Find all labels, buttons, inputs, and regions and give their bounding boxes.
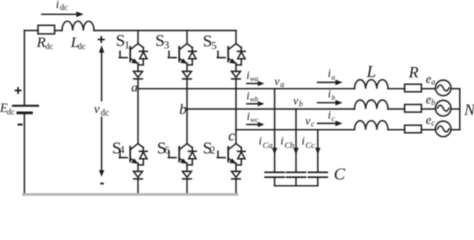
wire: S6 output to bottom rail — [186, 179, 188, 194]
grid inductor L phase b — [355, 100, 389, 109]
wire: inductor to resistor phase c — [388, 129, 405, 131]
capacitor branch a: wire from line a down — [274, 89, 276, 172]
wire: node b down to switch S6 — [186, 109, 188, 144]
svg-text:Cc: Cc — [306, 140, 316, 150]
wire: left vertical from battery - terminal to bottom rail — [23, 113, 25, 194]
svg-text:c: c — [311, 119, 315, 128]
svg-text:dc: dc — [78, 41, 86, 51]
svg-text:i: i — [280, 134, 283, 148]
switch S1 (IGBT + antiparallel diode + series diode) — [119, 44, 147, 79]
battery E_dc positive plate (long) — [13, 105, 38, 107]
svg-text:L: L — [366, 62, 376, 81]
wire: S3 output down to node b — [186, 79, 188, 109]
minus sign of battery — [18, 124, 23, 126]
switch S2 — [217, 144, 245, 179]
capacitor branch c: wire from line c down — [317, 130, 319, 172]
phase line a: node a to filter inductor — [138, 88, 355, 90]
capacitor Cc plates — [308, 172, 327, 177]
svg-text:a: a — [332, 74, 336, 82]
svg-text:b: b — [179, 102, 187, 118]
svg-text:c: c — [228, 128, 235, 144]
svg-text:a: a — [131, 80, 138, 95]
svg-text:dc: dc — [101, 108, 110, 118]
AC source e_a — [435, 80, 451, 96]
svg-text:b: b — [332, 94, 336, 102]
AC source e_c — [435, 121, 451, 137]
svg-text:i: i — [302, 134, 305, 148]
wire: S2 output to bottom rail — [235, 179, 237, 194]
svg-text:5: 5 — [211, 40, 217, 52]
svg-text:dc: dc — [45, 41, 53, 51]
wire: inductor to resistor phase a — [388, 88, 405, 90]
svg-text:v: v — [94, 102, 100, 116]
grid inductor L phase c — [355, 121, 389, 130]
svg-text:N: N — [463, 102, 474, 119]
wire: resistor to source phase b — [421, 108, 435, 110]
wire: top rail from L_dc to column c — [94, 30, 236, 32]
svg-text:i: i — [56, 0, 59, 11]
svg-text:i: i — [259, 134, 262, 148]
svg-text:R: R — [408, 64, 419, 81]
wire: S4 output to bottom rail — [137, 179, 139, 194]
svg-text:a: a — [280, 80, 284, 89]
minus sign of v_dc — [100, 183, 104, 185]
wire: source a to neutral bus — [451, 88, 460, 90]
svg-text:1: 1 — [124, 39, 130, 51]
svg-text:wc: wc — [250, 116, 259, 124]
grid resistor R phase a — [405, 84, 422, 92]
svg-text:dc: dc — [60, 2, 68, 12]
plus sign of battery — [15, 90, 22, 92]
wire: resistor to source phase c — [421, 129, 435, 131]
wire: node a down to switch S4 — [137, 89, 139, 144]
capacitor star-point bar — [275, 185, 318, 187]
svg-text:3: 3 — [164, 40, 170, 52]
svg-text:dc: dc — [7, 107, 15, 117]
resistor R_dc body — [38, 25, 55, 34]
capacitor Cb plates — [287, 172, 306, 177]
svg-text:Cb: Cb — [284, 140, 294, 150]
svg-text:a: a — [431, 78, 435, 87]
AC source e_b — [435, 100, 451, 116]
svg-text:6: 6 — [164, 146, 169, 157]
wire: source c to neutral bus — [451, 129, 460, 131]
plus sign of v_dc — [98, 39, 105, 41]
switch S3 — [168, 44, 196, 79]
grid resistor R phase b — [405, 105, 422, 113]
svg-text:wb: wb — [250, 96, 259, 104]
i_dc annotation arrow — [42, 13, 77, 15]
wire: left vertical from top rail to battery + terminal — [23, 31, 25, 106]
bottom rail (gray) — [24, 193, 238, 196]
inductor L_dc coil — [62, 21, 94, 30]
wire: resistor to source phase a — [421, 88, 435, 90]
wire: node c down to switch S2 — [235, 130, 237, 144]
battery E_dc negative plate (short) — [18, 112, 32, 115]
wire: S5 output down to node c — [235, 79, 237, 130]
svg-text:4: 4 — [119, 145, 125, 156]
i_Cb arrowhead on branch b — [293, 148, 298, 155]
wire: source b to neutral bus — [451, 108, 460, 110]
svg-text:R: R — [36, 35, 46, 51]
grid resistor R phase c — [405, 125, 422, 133]
phase line c — [236, 129, 355, 131]
wire: S1 output to node a — [137, 79, 139, 89]
wire: top rail, left segment to R_dc — [24, 30, 38, 32]
svg-text:C: C — [334, 165, 346, 184]
i_b annotation arrow — [318, 102, 336, 104]
grid inductor L phase a — [355, 80, 389, 89]
switch S4 — [119, 144, 147, 179]
wire: column c from top rail to switch S5 — [235, 31, 237, 44]
i_wb annotation arrow — [247, 103, 259, 105]
wire: top rail between R_dc and L_dc — [55, 30, 62, 32]
capacitor bottom stubs — [275, 177, 318, 186]
wire: column a from top rail to switch S1 — [137, 31, 139, 44]
svg-text:Ca: Ca — [263, 140, 273, 150]
capacitor Ca plates — [265, 172, 284, 177]
svg-text:b: b — [299, 100, 303, 109]
svg-text:b: b — [431, 98, 435, 107]
wire: inductor to resistor phase b — [388, 108, 405, 110]
v_dc annotation arrow (double headed, broken for label) — [101, 52, 103, 171]
neutral bus N — [459, 89, 461, 130]
i_c annotation arrow — [318, 122, 336, 124]
i_wc annotation arrow — [247, 124, 259, 126]
capacitor branch b: wire from line b down — [295, 109, 297, 172]
wire: column b from top rail to switch S3 — [186, 31, 188, 44]
svg-text:c: c — [431, 119, 435, 128]
phase line b — [187, 108, 355, 110]
i_Ca arrowhead on branch a — [272, 148, 277, 155]
switch S6 — [168, 144, 196, 179]
i_wa annotation arrow — [247, 83, 259, 85]
svg-text:2: 2 — [210, 146, 215, 157]
i_a annotation arrow — [318, 81, 336, 83]
svg-text:wa: wa — [250, 75, 259, 83]
switch S5 — [217, 44, 245, 79]
i_Cc arrowhead on branch c — [315, 148, 320, 155]
